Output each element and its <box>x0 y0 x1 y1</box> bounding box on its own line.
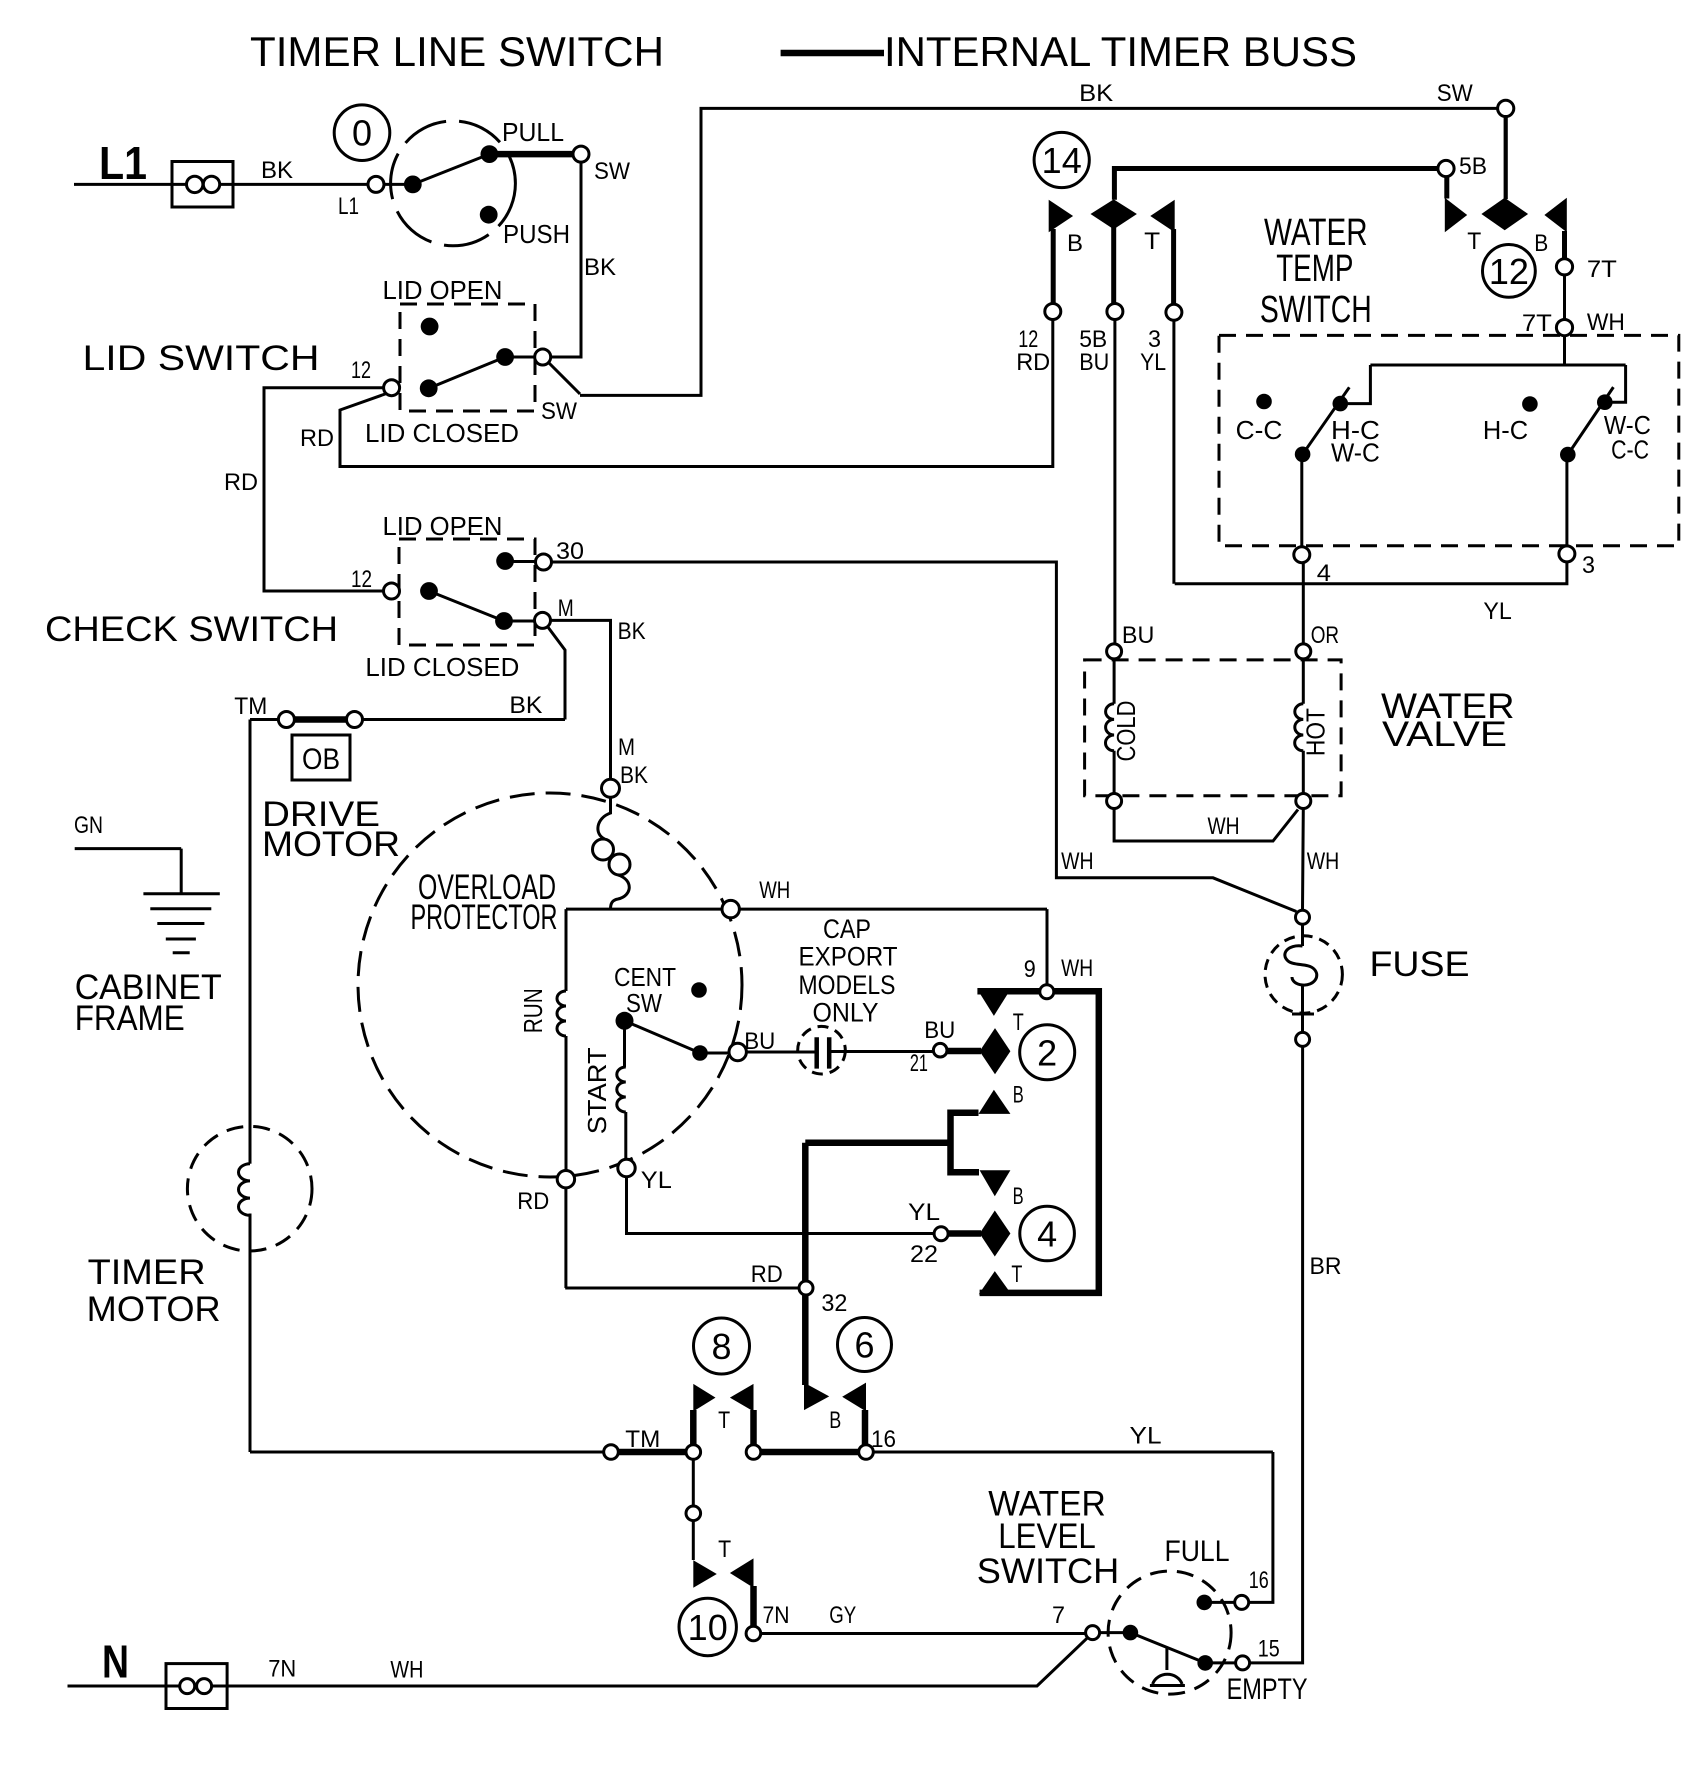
wire contact8 stems <box>693 1410 753 1445</box>
wire bottom rail thick segs <box>618 1449 859 1456</box>
wire 5B BU down to valve <box>1113 320 1116 644</box>
timer motor dashed circle <box>187 1126 312 1251</box>
svg-text:21: 21 <box>910 1050 928 1077</box>
svg-text:YL: YL <box>1130 1423 1162 1450</box>
wire fuse element <box>1292 924 1314 1032</box>
svg-text:16: 16 <box>871 1426 896 1453</box>
wire GY 7N to water level 7 <box>761 1632 1086 1635</box>
water temp switch dashed box <box>1219 335 1679 545</box>
svg-text:7T: 7T <box>1587 256 1617 283</box>
svg-text:L1: L1 <box>99 137 147 189</box>
wire M to TM junction <box>548 627 566 720</box>
svg-text:LID CLOSED: LID CLOSED <box>365 652 519 682</box>
svg-text:WH: WH <box>390 1657 423 1684</box>
lid switch dashed box <box>400 304 535 411</box>
wire timer motor to bottom rail <box>250 1451 604 1454</box>
wire water level arm <box>1130 1633 1205 1663</box>
coil TIMER MOTOR <box>238 1164 250 1216</box>
svg-text:12: 12 <box>1489 251 1529 292</box>
svg-text:BK: BK <box>1079 80 1113 107</box>
svg-text:B: B <box>1534 230 1548 257</box>
overload protector coil <box>598 797 611 839</box>
svg-text:SW: SW <box>541 398 577 425</box>
wire M to drive motor <box>551 620 611 779</box>
svg-text:SWITCH: SWITCH <box>1260 289 1372 331</box>
wire N feed <box>68 1638 1088 1686</box>
svg-text:SW: SW <box>594 158 630 185</box>
svg-text:B: B <box>1067 230 1083 257</box>
check switch dashed box <box>399 539 535 645</box>
wire export block rails <box>977 991 1098 1293</box>
node lid 12 <box>384 380 400 396</box>
node 7T WH <box>1556 320 1572 336</box>
svg-text:INTERNAL TIMER BUSS: INTERNAL TIMER BUSS <box>884 28 1357 75</box>
ground lead <box>75 849 182 894</box>
wire 3 YL run <box>1174 320 1567 583</box>
node 16 <box>859 1445 874 1460</box>
svg-text:4: 4 <box>1037 1214 1057 1255</box>
wire RUN to RD terminal <box>565 1036 799 1288</box>
svg-text:PROTECTOR: PROTECTOR <box>411 898 558 937</box>
svg-text:FRAME: FRAME <box>75 999 185 1038</box>
svg-text:9: 9 <box>1024 956 1036 983</box>
svg-text:BU: BU <box>1122 622 1154 649</box>
svg-text:7N: 7N <box>268 1656 296 1683</box>
svg-text:LEVEL: LEVEL <box>998 1517 1096 1556</box>
node 9 WH <box>1040 985 1054 999</box>
circled 12 <box>1483 245 1536 298</box>
wire 5B buss <box>1114 169 1438 200</box>
node contact8 right junction <box>746 1445 761 1460</box>
svg-text:WH: WH <box>759 877 790 904</box>
node 3 <box>1559 546 1575 562</box>
wire RD from lid 12 to timer 12RD <box>340 320 1053 467</box>
svg-text:TIMER: TIMER <box>88 1253 206 1292</box>
wire temp switch arms <box>1303 387 1614 455</box>
svg-text:LID OPEN: LID OPEN <box>383 511 503 541</box>
temp switch contacts <box>1256 394 1272 410</box>
svg-text:T: T <box>1467 228 1481 255</box>
svg-text:32: 32 <box>821 1290 847 1317</box>
svg-text:FUSE: FUSE <box>1370 945 1470 984</box>
wire water valve hot branch <box>1302 659 1305 794</box>
contact 14 triangles and diamond <box>1049 200 1073 233</box>
svg-text:COLD: COLD <box>1111 701 1141 762</box>
svg-text:LID CLOSED: LID CLOSED <box>365 418 519 448</box>
node TM link left <box>278 712 294 728</box>
svg-text:BK: BK <box>618 618 646 645</box>
svg-text:30: 30 <box>556 538 584 565</box>
wire contact10 right stem <box>750 1586 757 1627</box>
svg-text:YL: YL <box>1483 598 1511 625</box>
svg-text:14: 14 <box>1042 140 1082 181</box>
wire timer motor vertical <box>249 720 252 1453</box>
svg-text:EXPORT: EXPORT <box>799 942 898 972</box>
svg-text:C-C: C-C <box>1236 415 1283 445</box>
svg-text:EMPTY: EMPTY <box>1227 1673 1308 1706</box>
wire valve WH bottom link <box>1114 809 1303 911</box>
svg-text:YL: YL <box>908 1199 940 1226</box>
node 15 <box>1236 1656 1250 1670</box>
node OR valve <box>1296 644 1311 659</box>
contact 4 triangles and diamond <box>980 1170 1011 1196</box>
node valve cold out <box>1107 794 1122 809</box>
svg-text:B: B <box>1013 1082 1024 1109</box>
water level switch dashed circle <box>1108 1571 1231 1694</box>
svg-text:T: T <box>718 1407 730 1434</box>
svg-text:B: B <box>829 1407 841 1434</box>
wire TM run <box>250 718 565 721</box>
svg-text:MOTOR: MOTOR <box>87 1290 221 1329</box>
node water level 7 <box>1086 1626 1100 1640</box>
svg-text:SW: SW <box>626 988 662 1018</box>
contact 10 triangles <box>693 1560 717 1587</box>
svg-text:TIMER LINE SWITCH: TIMER LINE SWITCH <box>250 28 664 75</box>
node 30 <box>536 554 552 570</box>
node SW <box>573 146 589 162</box>
svg-text:W-C: W-C <box>1331 438 1380 468</box>
water level contacts <box>1123 1625 1139 1641</box>
svg-text:RD: RD <box>751 1261 783 1288</box>
svg-text:YL: YL <box>1140 349 1166 376</box>
wire contact2-4 bracket <box>951 1113 980 1173</box>
svg-text:MODELS: MODELS <box>799 970 896 1000</box>
contact 8 triangles <box>693 1384 715 1412</box>
svg-text:0: 0 <box>352 113 372 154</box>
svg-text:BU: BU <box>924 1017 955 1044</box>
wire 30 to fuse WH <box>552 562 1297 912</box>
node valve hot out <box>1296 794 1311 809</box>
circled 8 <box>694 1318 750 1374</box>
node 3 YL <box>1166 304 1182 320</box>
coil RUN <box>557 991 566 1036</box>
contact 2 triangles and diamond <box>977 990 1010 1016</box>
svg-text:8: 8 <box>711 1326 731 1367</box>
svg-text:TM: TM <box>625 1426 660 1453</box>
svg-text:SW: SW <box>1437 80 1473 107</box>
wire SW circle to contact 12 diamond <box>1504 117 1508 200</box>
svg-text:BU: BU <box>1079 349 1109 376</box>
wire L1 feed <box>74 183 405 186</box>
node TM bottom <box>604 1445 619 1460</box>
fuse link box N <box>166 1664 227 1709</box>
box OB <box>292 735 350 780</box>
wire OR up to temp switch 4 <box>1302 454 1304 644</box>
timer line switch dashed circle <box>391 121 516 246</box>
wire pull thick <box>489 151 574 158</box>
node motor WH <box>722 900 739 917</box>
wire 22 link <box>948 1230 981 1237</box>
wire water valve cold branch <box>1113 659 1116 794</box>
wire WH to 9 terminal <box>1046 909 1049 985</box>
node 21 <box>933 1043 947 1057</box>
node motor YL <box>618 1159 635 1176</box>
svg-text:RUN: RUN <box>518 988 548 1033</box>
svg-text:BK: BK <box>620 762 648 789</box>
svg-text:B: B <box>1013 1183 1024 1210</box>
node BU motor <box>729 1043 746 1060</box>
node motor BK <box>602 779 620 797</box>
wire capacitor leads <box>745 1050 933 1054</box>
svg-text:15: 15 <box>1258 1636 1280 1663</box>
svg-text:12: 12 <box>351 566 372 593</box>
circled 14 <box>1034 132 1089 187</box>
svg-text:PUSH: PUSH <box>503 219 570 249</box>
node SW top right <box>1498 100 1514 116</box>
svg-text:ONLY: ONLY <box>813 998 879 1028</box>
node 12 RD <box>1045 304 1061 320</box>
svg-text:T: T <box>1013 1009 1024 1036</box>
node 32 <box>799 1281 813 1295</box>
svg-text:TEMP: TEMP <box>1276 248 1353 290</box>
wire TM link thick <box>293 716 347 723</box>
wire contact6 right stem <box>862 1410 869 1445</box>
ground bars <box>143 894 219 953</box>
svg-text:CAP: CAP <box>823 914 871 944</box>
svg-text:C-C: C-C <box>1611 435 1649 465</box>
node fuse bottom <box>1296 1032 1310 1046</box>
node motor RD <box>557 1171 574 1188</box>
circled 6 <box>838 1318 892 1372</box>
svg-text:M: M <box>558 595 574 622</box>
svg-text:6: 6 <box>854 1325 874 1366</box>
svg-text:7: 7 <box>1052 1602 1065 1629</box>
svg-text:WH: WH <box>1307 848 1340 875</box>
capacitor C1 <box>798 1026 846 1074</box>
svg-text:OR: OR <box>1311 622 1339 649</box>
wire temp switch 7T feed <box>1348 275 1626 404</box>
svg-text:4: 4 <box>1317 560 1331 587</box>
svg-text:WH: WH <box>1061 848 1093 875</box>
node check 12 <box>384 583 400 599</box>
svg-text:OB: OB <box>302 743 340 776</box>
svg-text:2: 2 <box>1037 1032 1057 1073</box>
svg-text:VALVE: VALVE <box>1382 715 1507 754</box>
circled 2 <box>1020 1025 1075 1080</box>
svg-text:M: M <box>618 734 635 761</box>
svg-text:RD: RD <box>300 425 334 452</box>
svg-text:22: 22 <box>910 1241 938 1268</box>
wire lid switch arm <box>429 357 535 388</box>
wire contact8 to contact10 <box>692 1459 695 1560</box>
water valve dashed box <box>1085 660 1342 796</box>
wire contact12 T stem <box>1562 231 1567 259</box>
wire lid 12 to check 12 <box>264 388 384 591</box>
svg-text:FULL: FULL <box>1165 1535 1230 1568</box>
svg-text:WH: WH <box>1061 955 1093 982</box>
svg-text:12: 12 <box>351 357 371 384</box>
svg-text:TM: TM <box>234 693 267 720</box>
svg-text:CHECK SWITCH: CHECK SWITCH <box>45 610 338 649</box>
wire start winding run <box>625 1021 935 1234</box>
svg-text:MOTOR: MOTOR <box>262 825 400 864</box>
svg-text:GY: GY <box>829 1602 856 1629</box>
node 5B <box>1438 160 1454 176</box>
legend thick segment <box>781 50 884 57</box>
svg-text:WH: WH <box>1587 309 1625 336</box>
node TM link right <box>347 712 363 728</box>
cent sw contacts <box>691 982 707 998</box>
node 5B BU <box>1107 304 1123 320</box>
svg-text:T: T <box>1011 1261 1022 1288</box>
svg-text:BU: BU <box>744 1028 775 1055</box>
wire 5B drop to contact12 <box>1444 176 1449 199</box>
drive motor dashed circle <box>358 793 742 1177</box>
svg-text:WH: WH <box>1208 813 1240 840</box>
svg-text:3: 3 <box>1582 552 1595 579</box>
node fuse top <box>1296 910 1310 924</box>
node 7T <box>1556 259 1572 275</box>
wire cent sw arm <box>625 1021 730 1053</box>
circled 0 <box>334 105 390 161</box>
svg-text:BK: BK <box>584 254 616 281</box>
node contact10 upper <box>686 1506 701 1521</box>
svg-text:N: N <box>102 1635 129 1687</box>
svg-text:7N: 7N <box>763 1602 790 1629</box>
circled 10 <box>679 1598 736 1655</box>
wire check switch arm <box>429 562 536 622</box>
circled 4 <box>1020 1206 1075 1261</box>
wire 16 full to YL riser <box>874 1452 1273 1602</box>
wire timer line switch arm <box>413 154 490 184</box>
wire 32 RD thick run <box>805 1143 950 1385</box>
coil HOT <box>1295 704 1304 751</box>
lid switch contacts <box>421 318 439 336</box>
svg-text:GN: GN <box>74 812 103 839</box>
svg-text:BK: BK <box>261 157 293 184</box>
wire water level diaphragm <box>1150 1648 1185 1686</box>
svg-text:HOT: HOT <box>1301 708 1331 756</box>
svg-text:LID OPEN: LID OPEN <box>383 275 503 305</box>
wire 21 link <box>946 1048 981 1055</box>
node contact8 left junction <box>686 1445 701 1460</box>
node L1 terminal <box>368 176 384 192</box>
node 22 <box>934 1227 948 1241</box>
node BU valve <box>1107 644 1122 659</box>
svg-text:SWITCH: SWITCH <box>977 1552 1120 1591</box>
svg-text:7T: 7T <box>1522 310 1552 337</box>
node lid SW <box>535 349 551 365</box>
svg-text:5B: 5B <box>1459 153 1487 180</box>
node 7N <box>746 1626 761 1641</box>
svg-text:RD: RD <box>517 1188 549 1215</box>
node M <box>535 612 551 628</box>
svg-text:16: 16 <box>1249 1567 1269 1594</box>
fuse link box L1 <box>172 162 233 208</box>
coil START <box>617 1067 626 1112</box>
node 16 full <box>1235 1595 1249 1609</box>
wire lid SW to top-right BK bus <box>548 108 1498 395</box>
svg-text:YL: YL <box>641 1167 672 1194</box>
coil COLD <box>1105 704 1114 751</box>
svg-text:L1: L1 <box>338 193 359 220</box>
check switch contacts <box>496 552 514 570</box>
timer line switch contacts <box>404 176 422 194</box>
wire motor WH bus <box>566 909 1047 991</box>
contact 6 triangles <box>804 1383 829 1411</box>
wire SW down to lid switch <box>551 162 581 357</box>
svg-text:T: T <box>718 1536 731 1563</box>
svg-text:LID SWITCH: LID SWITCH <box>83 339 320 378</box>
wire 15 to BR riser <box>1250 1046 1303 1663</box>
wire contact14 stems <box>1053 226 1173 305</box>
svg-text:PULL: PULL <box>502 117 564 147</box>
fuse dashed circle <box>1265 936 1342 1013</box>
svg-text:BR: BR <box>1310 1253 1342 1280</box>
svg-text:BK: BK <box>509 692 542 719</box>
svg-text:RD: RD <box>1016 349 1050 376</box>
node 4 <box>1294 547 1310 563</box>
svg-text:10: 10 <box>688 1607 728 1648</box>
svg-text:T: T <box>1144 228 1160 255</box>
contact 12 triangles and diamond <box>1445 198 1467 233</box>
svg-text:H-C: H-C <box>1483 415 1528 445</box>
svg-text:RD: RD <box>224 469 258 496</box>
svg-text:START: START <box>582 1047 612 1134</box>
